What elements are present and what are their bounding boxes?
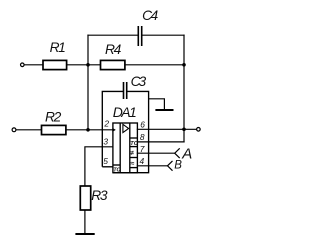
svg-text:R2: R2 <box>45 109 62 124</box>
svg-text:6: 6 <box>140 119 145 129</box>
svg-text:C3: C3 <box>131 74 147 89</box>
svg-text:4: 4 <box>140 156 145 166</box>
svg-text:2: 2 <box>103 119 109 129</box>
svg-text:R3: R3 <box>91 188 108 203</box>
svg-text:ТС: ТС <box>113 167 120 173</box>
svg-text:A: A <box>181 145 192 162</box>
svg-text:5: 5 <box>103 156 108 166</box>
svg-text:C4: C4 <box>142 8 158 23</box>
svg-text:DA1: DA1 <box>113 104 136 120</box>
svg-text:B: B <box>174 160 182 172</box>
svg-text:ТС: ТС <box>130 141 138 147</box>
svg-text:7: 7 <box>140 144 145 154</box>
svg-text:8: 8 <box>140 132 145 142</box>
svg-text:R1: R1 <box>50 40 66 55</box>
svg-text:3: 3 <box>103 137 108 147</box>
svg-text:≠: ≠ <box>130 150 134 157</box>
svg-text:≈: ≈ <box>130 160 134 167</box>
svg-text:R4: R4 <box>105 42 122 57</box>
